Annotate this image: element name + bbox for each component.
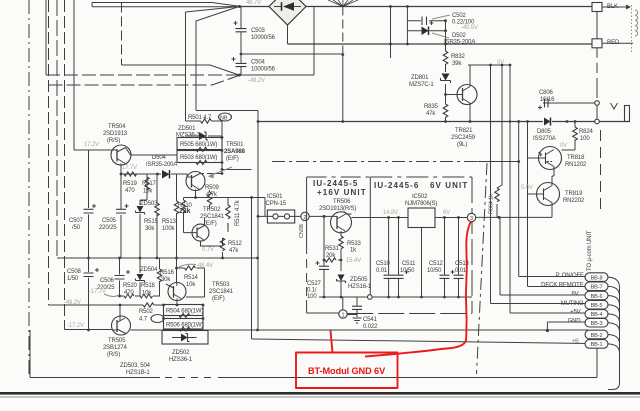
svg-text:DECK REMOTE: DECK REMOTE (541, 282, 584, 288)
svg-text:CN38: CN38 (299, 224, 305, 238)
diode D504 (162, 170, 170, 179)
svg-text:C510: C510 (376, 261, 391, 267)
node dot x258 gnd rail y121 (257, 120, 260, 123)
wire D504 row y174 (121, 174, 187, 177)
transistor TR819 (537, 183, 560, 206)
wire R516 column (159, 258, 161, 296)
resistor R512 (220, 238, 224, 251)
node dot C503 C504 junction (240, 53, 243, 56)
svg-text:0.1/: 0.1/ (307, 288, 317, 294)
svg-text:R517: R517 (142, 181, 157, 187)
node dots on unit gnd rail (323, 296, 326, 299)
svg-text:17.7V: 17.7V (122, 165, 137, 171)
svg-text:BB-8: BB-8 (591, 275, 603, 281)
node dot x407 top rail (406, 5, 409, 8)
wire TR819 emitter stub (551, 206, 553, 213)
wire vertical x342.8 dashed from fan (342, 7, 344, 56)
svg-text:10k: 10k (186, 282, 196, 288)
svg-text:BB-1: BB-1 (591, 342, 603, 348)
svg-text:100: 100 (580, 136, 590, 142)
wire y54 rail from C504 node (241, 53, 343, 55)
node dot x407 y44 (406, 43, 409, 46)
resistor R501 (201, 119, 212, 123)
wire vertical x265 to ICP (264, 198, 266, 217)
wire R520 R518 row y296 (120, 295, 161, 297)
wire R513 column (176, 174, 178, 258)
wire vertical x251.5 +B feed down (251, 198, 253, 340)
node dot 6V rail (498, 216, 501, 219)
node dots gnd rail y258 (87, 257, 90, 260)
resistor R504 box (164, 305, 204, 316)
wire R864 feed from 0V (497, 65, 502, 217)
svg-text:470: 470 (124, 290, 134, 296)
node dot BB-3 jog (546, 329, 549, 332)
svg-text:(R/S): (R/S) (107, 138, 120, 144)
svg-text:4.7k: 4.7k (206, 192, 218, 198)
svg-text:R512: R512 (228, 241, 243, 247)
node dot TR501 collector row (194, 196, 197, 199)
wire R514 row (177, 268, 205, 297)
capacitor C508 (84, 273, 94, 277)
wire ZD504 column (139, 258, 141, 296)
node dot x445 gnd rail (444, 120, 447, 123)
dash-dot module border right x477 (477, 163, 488, 374)
svg-text:R519: R519 (123, 181, 138, 187)
resistor R516 (157, 269, 161, 282)
svg-text:TR819: TR819 (565, 191, 583, 197)
wire ZD503 R517 column (140, 174, 147, 258)
svg-text:R864 1k: R864 1k (489, 194, 495, 214)
wire BB output curves to right (608, 277, 620, 287)
svg-text:10/50: 10/50 (427, 268, 442, 274)
ground symbol C541 (353, 318, 362, 323)
capacitor C511 (398, 218, 400, 275)
wire diagonal feeder to node A with corner x185 (186, 7, 240, 13)
svg-text:C512: C512 (429, 261, 444, 267)
wire second -49V rail dashed y85 (49, 76, 240, 86)
svg-text:R835: R835 (424, 104, 439, 110)
svg-text:C541: C541 (363, 317, 378, 323)
svg-text:14.8V: 14.8V (383, 210, 398, 216)
svg-text:MZS36-1: MZS36-1 (176, 133, 200, 139)
svg-text:IU-2445-6: IU-2445-6 (374, 181, 419, 190)
wire vertical x445.5 down through R832 ZD801 R835 (445, 21, 447, 122)
wire main top rail y6.5 from node A to BLK (239, 6, 592, 8)
svg-text:ZD502: ZD502 (172, 350, 190, 356)
node dot gnd rail x258 (256, 329, 259, 332)
unit box divider (369, 177, 371, 297)
svg-text:2SC1841: 2SC1841 (209, 289, 234, 295)
node dot R514 left (175, 267, 178, 270)
svg-text:(9L): (9L) (457, 142, 467, 148)
wire 0V rail to TR821 collector (468, 64, 510, 66)
svg-text:RN2202: RN2202 (563, 198, 585, 204)
resistor R518 (140, 294, 153, 298)
svg-text:RN1202: RN1202 (565, 162, 587, 168)
node dots R504 R506 (162, 304, 165, 307)
svg-text:TO µ-com UNIT: TO µ-com UNIT (587, 230, 593, 271)
resistor R531 (325, 258, 336, 262)
svg-text:R504 680(1W): R504 680(1W) (166, 309, 203, 315)
wire R520 junction dot (118, 295, 121, 298)
svg-text:4.7: 4.7 (139, 317, 148, 323)
svg-text:MUTING: MUTING (561, 301, 584, 307)
wire top-left corner stub (92, 3, 122, 7)
wire fan of converging leads at top (328, 0, 358, 7)
svg-text:TR818: TR818 (567, 155, 585, 161)
svg-text:D805: D805 (537, 129, 552, 135)
resistor R506 box (164, 319, 204, 330)
fuse IC501 ICP-N15 box (267, 210, 294, 223)
resistor R832 (443, 51, 448, 64)
NB oval R502 (151, 315, 164, 323)
node dot D504 left (156, 173, 159, 176)
wire left vertical bus line x46 (45, 0, 47, 75)
node dot x390 top rail (389, 5, 392, 8)
node dots BB column tops (489, 64, 492, 67)
svg-text:0V: 0V (497, 60, 504, 66)
svg-text:47k: 47k (426, 111, 436, 117)
wire ZD501 row y136 (186, 135, 223, 137)
zener ZD503 (137, 206, 144, 213)
wire vertical x121.5 top dashed (121, 3, 123, 66)
dash-dot module bottom border (30, 330, 597, 378)
svg-text:R515: R515 (144, 219, 159, 225)
wire C502 branch (407, 20, 445, 22)
wire diagonal feeder to node A with corner x196 (196, 7, 239, 22)
dash-dot module border y161 (272, 161, 478, 163)
svg-text:R505 680(1W): R505 680(1W) (180, 142, 217, 148)
node dot D502 right (444, 29, 447, 32)
svg-text:-49.2V: -49.2V (248, 78, 265, 84)
node dot TR821 emitter gnd (469, 120, 472, 123)
svg-text:RED: RED (607, 40, 620, 46)
diode inside bridge (274, 6, 301, 8)
svg-text:C503: C503 (251, 28, 266, 34)
node dot 0V x502 (501, 64, 504, 67)
svg-text:R824: R824 (579, 129, 594, 135)
open node jack top (595, 101, 600, 106)
terminal RED square (592, 39, 602, 48)
wire TR504 17.2V rail (74, 149, 112, 151)
resistor R514 (185, 266, 196, 270)
svg-text:HZS36-1: HZS36-1 (169, 357, 193, 363)
capacitor C506 (115, 276, 125, 280)
svg-text:C505: C505 (102, 218, 117, 224)
wire vertical x390.5 (390, 7, 392, 59)
wire left vertical bus line x48.5 (48, 0, 50, 305)
unit box IU-2445-6 outline (370, 176, 472, 178)
coil on right edge (635, 10, 638, 36)
wire BB-4 lead (510, 312, 585, 314)
wire rail A x121 y65 diagonal to C504 node (122, 65, 240, 75)
capacitor C527 (323, 216, 325, 265)
svg-text:30k: 30k (145, 226, 155, 232)
resistor R515 (155, 203, 159, 216)
svg-text:R509: R509 (205, 185, 220, 191)
svg-text:6V: 6V (571, 292, 578, 298)
node dots on 16V row (323, 215, 326, 218)
svg-text:0.01: 0.01 (455, 268, 467, 274)
svg-text:R503 680(1W): R503 680(1W) (180, 155, 217, 161)
svg-text:NB: NB (220, 116, 228, 122)
wire vertical x196 down to y110.5 (195, 21, 197, 111)
connector BB-2 (585, 330, 608, 339)
resistor R864 (495, 188, 499, 202)
wire vertical x407.4 C502 D502 left node (406, 7, 408, 45)
wire BB-5 lead (491, 303, 586, 305)
wire R513 lower column to R514 junction (176, 258, 178, 283)
red annotation stub at box top (331, 331, 333, 353)
connector BB-8 (585, 273, 608, 282)
svg-text:BB-7: BB-7 (591, 285, 603, 291)
resistor R519 (124, 172, 137, 176)
wire TR504 right to R-boxes (131, 154, 178, 156)
wire GND long rail y121.5 (258, 121, 630, 123)
capacitor C503 (240, 7, 242, 29)
svg-text:ICPN-15: ICPN-15 (264, 201, 287, 207)
node dot x342 gnd rail (341, 120, 344, 123)
node dot x258 ICP lead (257, 215, 260, 218)
wire internal gnd rail of units (319, 296, 472, 298)
svg-text:BLK: BLK (607, 4, 618, 10)
connector BB-1 (585, 340, 608, 349)
page bottom dark edge line (0, 392, 640, 395)
wire TR821 base feed (445, 31, 447, 95)
capacitor C505 (116, 209, 126, 213)
node dot x445 y44 (444, 43, 447, 46)
resistor R503 box (177, 151, 222, 163)
svg-text:R506 680(1W): R506 680(1W) (166, 323, 203, 329)
svg-text:1: 1 (341, 313, 344, 319)
node dot R824 top (574, 120, 577, 123)
svg-text:ZD501: ZD501 (178, 126, 196, 132)
svg-text:-40.5V: -40.5V (461, 25, 478, 31)
node dot C502 right (444, 19, 447, 22)
svg-text:IC501: IC501 (267, 194, 283, 200)
node dot x510 gnd cross (509, 120, 512, 123)
connector BB-5 (585, 300, 608, 309)
wire rectifier output y44 rail (287, 25, 289, 44)
resistor R513 (174, 201, 178, 214)
svg-text:R501 4.7: R501 4.7 (188, 115, 212, 121)
svg-text:2SC2459: 2SC2459 (451, 135, 476, 141)
wire R512 to GND rail (222, 252, 224, 258)
capacitor C806 (543, 102, 552, 104)
wire R502 rail y305 (49, 304, 164, 306)
wire BB column verticals (491, 65, 528, 313)
NB oval R501 (219, 113, 232, 121)
node dot 0V (509, 64, 512, 67)
transistor TR502 (192, 224, 209, 241)
transistor TR506 (331, 212, 352, 233)
svg-text:BB-6: BB-6 (591, 294, 603, 300)
svg-text:100k: 100k (162, 226, 176, 232)
wire BB-8 lead (519, 276, 585, 278)
wire left vertical bus line x57 (56, 0, 58, 258)
wire node1 row and C541 (343, 297, 357, 315)
red annotation line from node 3 (365, 221, 471, 357)
wire between BLK and RED (596, 12, 598, 39)
wire +B long rail to BB-1 (252, 339, 589, 344)
wire vertical x342.8 solid to GND rail (342, 55, 344, 122)
dotted chassis border right edge (631, 5, 633, 52)
wire GND rail y258 left section (57, 257, 258, 259)
svg-text:D502: D502 (452, 33, 467, 39)
svg-text:TR502: TR502 (203, 207, 221, 213)
node dot C508 bottom (87, 329, 90, 332)
svg-text:6V UNIT: 6V UNIT (430, 181, 468, 190)
transistor TR503 (168, 283, 186, 301)
wire left vertical bus line x74 (73, 0, 75, 150)
svg-text:IC502: IC502 (412, 194, 428, 200)
wire second top rail from x121 (122, 3, 240, 7)
svg-text:C502: C502 (452, 13, 467, 19)
transistor TR505 (112, 316, 131, 335)
svg-text:R516: R516 (160, 270, 175, 276)
svg-text:15.4V: 15.4V (346, 258, 361, 264)
resistor R510 (181, 200, 185, 213)
svg-text:(E/F): (E/F) (226, 156, 239, 162)
node 3 circle (467, 213, 475, 221)
wire C506 column (119, 258, 121, 296)
connector BB-6 (585, 291, 608, 300)
resistor R835 (443, 104, 448, 117)
wire main 16V row inside boxes (309, 216, 467, 217)
svg-text:TR821: TR821 (455, 128, 473, 134)
wire D502 branch (407, 30, 445, 32)
svg-text:C504: C504 (251, 60, 266, 66)
wire RED lead right (602, 42, 633, 44)
wire TR502 emitter to R512 (201, 238, 223, 246)
svg-text:C507: C507 (69, 218, 84, 224)
wire -49V rail dashed from left (46, 74, 239, 76)
capacitor C507 (84, 209, 94, 213)
unit box IU-2445-5 outline (307, 176, 371, 178)
node dot fan y54 (341, 53, 344, 56)
capacitor C502 (422, 17, 427, 26)
svg-text:2SA988: 2SA988 (224, 149, 246, 155)
svg-text:/50: /50 (72, 225, 81, 231)
svg-text:BB-3: BB-3 (591, 321, 603, 327)
svg-text:R832: R832 (451, 54, 466, 60)
wire 6V down to BB-6 (499, 217, 501, 295)
svg-text:2SD1913: 2SD1913 (103, 131, 128, 137)
wire C507 branch (88, 150, 90, 258)
svg-text:2: 2 (303, 215, 306, 221)
svg-text:10000/56: 10000/56 (251, 67, 276, 73)
zener ZD502 box (162, 331, 208, 345)
svg-text:(E/F): (E/F) (212, 296, 225, 302)
wire GND low rail y330 (65, 329, 589, 332)
wire BB-3 lead with jog (547, 322, 585, 330)
svg-text:20k: 20k (326, 253, 336, 259)
wire R510 branch down to TR502 (184, 198, 193, 233)
svg-text:47k: 47k (229, 248, 239, 254)
node dot C527 top (323, 215, 326, 218)
transistor TR818 (539, 147, 562, 170)
wire R515 column (156, 174, 158, 258)
wire TR505 base column (119, 305, 121, 317)
svg-text:R518: R518 (141, 283, 156, 289)
resistor R505 box (177, 138, 222, 150)
open node jack bottom (595, 119, 600, 124)
wire TR818 emitter to TR819 collector (552, 170, 554, 184)
svg-text:0V: 0V (560, 143, 567, 149)
red annotation box (296, 353, 398, 389)
svg-text:+B: +B (572, 339, 579, 345)
svg-text:ISR35-200A: ISR35-200A (444, 40, 475, 46)
wire +48V rail top converging at C503 node (92, 6, 239, 8)
resistor R509 (209, 190, 211, 192)
svg-text:P. ON/OFF: P. ON/OFF (556, 273, 584, 279)
wire R501 row y121 (186, 121, 223, 136)
svg-text:2SC1841: 2SC1841 (200, 214, 225, 220)
svg-text:C511: C511 (402, 261, 416, 267)
capacitor C504 (240, 54, 242, 63)
wire BB-6 lead (500, 294, 585, 296)
node 2 circle (301, 212, 309, 220)
svg-text:1/50: 1/50 (67, 276, 79, 282)
capacitor C513 (458, 218, 460, 275)
svg-text:GND: GND (568, 318, 582, 324)
node dot x518 y161 (517, 160, 520, 163)
wire 6V output rail from node 3 (476, 206, 552, 218)
zener ZD801 (442, 74, 450, 81)
svg-text:ISS270A: ISS270A (533, 136, 556, 142)
svg-text:TR506: TR506 (333, 199, 351, 205)
svg-text:C506: C506 (100, 278, 115, 284)
diode D805 (544, 118, 551, 126)
wire dashed border segment x600 (600, 130, 602, 212)
wire bridge bottom to y75 node (239, 7, 314, 76)
zener ZD505 (338, 275, 345, 282)
svg-text:(E/F): (E/F) (204, 221, 217, 227)
svg-text:ZD503: ZD503 (140, 201, 158, 207)
svg-text:39k: 39k (452, 61, 462, 67)
node dots R531 (323, 259, 326, 262)
wire vertical x222 R-box right column (207, 136, 252, 174)
svg-text:TR501: TR501 (226, 142, 244, 148)
svg-text:10/16: 10/16 (540, 97, 555, 103)
jack V contact (611, 103, 618, 109)
node 1 circle (339, 310, 347, 318)
wire BB bundle down right edge (608, 287, 620, 390)
svg-text:10k: 10k (142, 291, 152, 297)
node dot TR821 base (444, 93, 447, 96)
connector BB-3 (585, 318, 608, 327)
svg-text:0.7V: 0.7V (202, 247, 214, 253)
svg-text:BB-4: BB-4 (591, 312, 603, 318)
svg-text:BT-Modul GND 6V: BT-Modul GND 6V (308, 366, 386, 376)
svg-text:10000/56: 10000/56 (251, 35, 276, 41)
svg-text:+5V: +5V (570, 310, 581, 316)
wire RED square down dashed (596, 48, 598, 101)
svg-text:IU-2445-5: IU-2445-5 (313, 179, 358, 188)
svg-text:22k: 22k (179, 208, 191, 215)
svg-text:TR505: TR505 (108, 338, 126, 344)
svg-text:R533: R533 (347, 241, 362, 247)
svg-text:R513: R513 (162, 219, 177, 225)
wire R-boxes left vertical (163, 305, 165, 330)
svg-text:+16V UNIT: +16V UNIT (317, 188, 367, 197)
svg-text:30k: 30k (161, 277, 171, 283)
svg-text:10/50: 10/50 (400, 268, 415, 274)
svg-text:TR503: TR503 (212, 282, 230, 288)
wire TR504 emitter down through C505 (120, 165, 122, 258)
svg-text:C806: C806 (539, 90, 554, 96)
wire vertical x185 down to R501 (185, 12, 187, 121)
